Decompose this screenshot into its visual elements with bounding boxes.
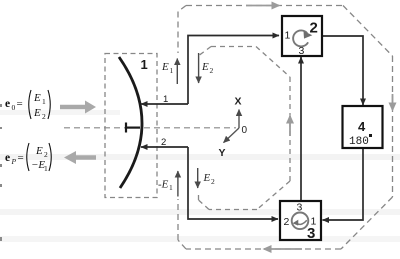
input wave thick arrow right: [60, 101, 96, 114]
svg-text:e: e: [5, 152, 10, 164]
svg-text:0: 0: [242, 125, 248, 136]
flow arrow up (inner boundary): [289, 116, 291, 136]
value label 180 degrees: [349, 134, 372, 148]
svg-text:3: 3: [299, 45, 305, 57]
svg-text:E: E: [161, 61, 169, 73]
wire: circulator 2 port 2 to phase shifter 4 input: [322, 36, 363, 105]
svg-text:E: E: [35, 145, 43, 157]
wire: port 2 feeder, vertical + bottom run into circulator 3 port 2: [188, 147, 278, 219]
phase shifter 4: [343, 106, 383, 148]
wire: circulator 3 port 3 up to circulator 2 port 3: [300, 57, 302, 201]
svg-text:1: 1: [44, 164, 48, 173]
wire: port 1 stub into reflector: [141, 103, 188, 105]
feed probe at focus: [126, 123, 140, 133]
svg-text:0: 0: [12, 103, 16, 112]
flow arrow left (bottom boundary): [264, 248, 302, 250]
label -E1: [158, 179, 173, 193]
svg-text:E: E: [203, 172, 211, 184]
Y axis arrow: [224, 128, 240, 143]
field arrow E2 down (returned, line 1): [198, 53, 200, 83]
label E1: [161, 61, 174, 75]
svg-text:=: =: [17, 98, 23, 110]
svg-text:3: 3: [307, 225, 315, 242]
output wave thick arrow left: [64, 151, 96, 164]
svg-text:2: 2: [161, 137, 166, 148]
svg-text:1: 1: [163, 94, 168, 105]
formula e0 = (E1 E2) incident wave vector: [5, 90, 50, 121]
svg-text:1: 1: [169, 183, 173, 192]
scan-edge marks: [0, 104, 2, 241]
flow arrow down (right boundary): [392, 94, 394, 110]
dashed optical axis line to origin: [64, 127, 236, 129]
svg-text:2: 2: [284, 216, 290, 228]
svg-text:4: 4: [358, 119, 366, 134]
svg-text:1: 1: [42, 97, 46, 106]
svg-text:2: 2: [42, 112, 46, 121]
svg-text:e: e: [5, 98, 10, 110]
inner dashed signal-path boundary (return loop): [199, 47, 291, 210]
svg-text:=: =: [18, 152, 24, 164]
field arrow E2 down (returned, line 2): [197, 168, 199, 188]
label E2: [203, 172, 216, 186]
svg-text:1: 1: [141, 57, 148, 72]
svg-text:E: E: [33, 92, 41, 104]
svg-text:E: E: [33, 107, 41, 119]
dashed enclosure box 1 (reflector antenna unit): [105, 54, 157, 198]
svg-text:X: X: [235, 96, 242, 108]
reflector U1 (parabolic mirror arc): [119, 57, 142, 188]
field arrow -E1 up (incident, line 2): [177, 171, 179, 197]
wire: port 1 feeder, vertical + top run into circulator 2 port 1: [188, 36, 279, 105]
flow arrow right (top boundary): [246, 5, 279, 7]
svg-text:-E: -E: [158, 179, 169, 191]
field arrow E1 up (incident, line 1): [176, 59, 178, 85]
svg-text:180: 180: [349, 136, 369, 148]
svg-text:E: E: [201, 61, 209, 73]
svg-text:2: 2: [44, 150, 48, 159]
svg-text:1: 1: [170, 66, 174, 75]
svg-text:3: 3: [297, 202, 303, 214]
svg-text:1: 1: [285, 30, 291, 42]
X axis arrow: [238, 110, 240, 129]
circulator 2: [282, 16, 322, 56]
svg-text:2: 2: [210, 66, 214, 75]
wire: port 2 stub into reflector: [141, 146, 188, 148]
svg-text:P: P: [11, 157, 17, 166]
wire: phase shifter 4 output to circulator 3 port 1: [323, 148, 364, 220]
circulator 3: [280, 201, 321, 240]
svg-text:2: 2: [211, 177, 215, 186]
label E2: [201, 61, 214, 75]
svg-text:2: 2: [310, 20, 318, 37]
formula eP = (E2 -E1) reflected wave vector: [5, 143, 51, 173]
outer dashed signal-path boundary (forward loop): [178, 6, 393, 250]
svg-text:Y: Y: [219, 147, 226, 159]
